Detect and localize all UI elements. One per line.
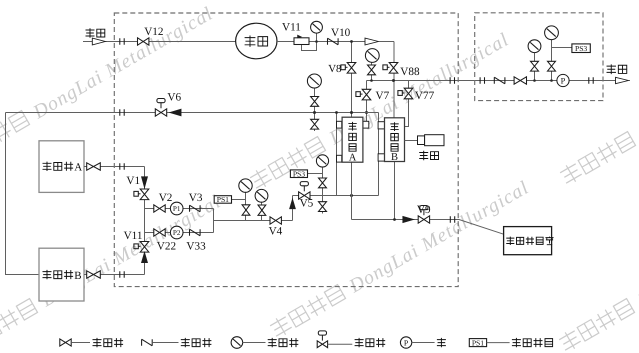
legend: pressure gauge 压力表 [231, 337, 298, 349]
gas cylinder 气缸 [405, 135, 445, 161]
auto valve V9 [417, 204, 431, 223]
tank B manual valve [87, 271, 101, 278]
gauge stub 2 on discharge [255, 189, 268, 220]
check valve V10 [328, 27, 351, 45]
svg-text:B: B [74, 270, 81, 282]
hot water outlet 热水 [607, 64, 629, 83]
pump P2 [170, 226, 183, 239]
circulation tank A 循环槽A [39, 141, 84, 193]
flange at mini box exit [589, 77, 593, 84]
check valve V3 [189, 192, 203, 212]
svg-text:V8: V8 [328, 63, 341, 75]
flange union on air line [120, 38, 124, 45]
node: air inlet arrow 空气 [86, 28, 106, 45]
gauge + PS3 stub at x322.5 [290, 155, 328, 214]
pump P hot water [557, 74, 569, 86]
svg-text:V77: V77 [415, 90, 435, 102]
flange tank B line [120, 271, 124, 278]
svg-text:PS3: PS3 [575, 44, 587, 53]
svg-text:V1: V1 [126, 175, 140, 187]
wire: V8 branch down into filter A top [350, 40, 353, 117]
svg-text:PS3: PS3 [293, 169, 305, 178]
filter B 过滤器B [378, 118, 404, 163]
flange tank A line [120, 163, 124, 170]
gauge stub 2 + PS3 mini box [545, 26, 591, 82]
tank A manual valve [87, 163, 101, 170]
valve V77 (solenoid) [398, 88, 435, 102]
svg-text:V11: V11 [282, 21, 301, 33]
svg-text:V7: V7 [376, 90, 390, 102]
filter A bottom stem + drop to waste line [350, 111, 353, 220]
svg-text:PS1: PS1 [217, 195, 229, 204]
svg-text:V3: V3 [189, 192, 203, 204]
wire: tank A outlet [84, 166, 145, 168]
svg-text:V2: V2 [159, 192, 173, 204]
svg-text:B: B [391, 152, 398, 163]
hot water unit dashed boundary [475, 13, 603, 101]
flow arrow on top line [365, 38, 379, 45]
svg-text:V5: V5 [300, 197, 314, 209]
valve V88 (solenoid) [383, 63, 420, 79]
flow arrow down into V1 [142, 177, 148, 188]
wire: pump branch lower [145, 232, 214, 234]
filter B bottom stem [394, 161, 396, 220]
flange on V6 line [120, 109, 124, 116]
svg-text:V6: V6 [167, 91, 181, 103]
filter B drain vertical [378, 113, 380, 196]
PS1 differential pressure switch [214, 195, 245, 204]
wire: V7 branch into filter A right tab [365, 81, 368, 122]
wire: V88 branch from corner down into filter B top [393, 42, 395, 119]
flange at hot-water mini box entry [480, 77, 484, 84]
pressure gauge at V11 outlet [311, 21, 323, 42]
main system dashed boundary [114, 13, 458, 287]
svg-text:P2: P2 [173, 229, 181, 237]
gauge + valves stub at x314.5 [307, 74, 321, 131]
check valve V33 [186, 229, 206, 252]
manual valve in mini box [514, 77, 526, 84]
wire: pump branch upper [145, 208, 214, 210]
wire: main supply line y112.5 (V6 line) [6, 112, 379, 114]
flow arrow left toward V6 [170, 109, 181, 116]
gas tank 气罐 [236, 23, 277, 59]
svg-text:P: P [561, 77, 566, 86]
legend: manual valve 手动阀 [60, 338, 123, 347]
flow arrow up to flush line [290, 199, 296, 209]
svg-text:V88: V88 [400, 66, 420, 78]
wire: flush line L1 y195.5 [293, 194, 379, 197]
svg-text:V11: V11 [124, 230, 143, 242]
filter A drain vertical [335, 111, 338, 195]
flow arrow up into V11 [142, 253, 148, 263]
wire: waste line L2 y219.5 [352, 218, 504, 234]
flange on waste line [450, 216, 454, 223]
svg-text:A: A [349, 152, 357, 163]
svg-text:V9: V9 [417, 204, 431, 216]
gauge stub 1 mini box [528, 40, 541, 82]
legend: check valve 单向阀 [142, 338, 212, 347]
valve V2 [154, 192, 173, 212]
svg-text:P1: P1 [173, 205, 181, 213]
wire: hot water header y80.5 [367, 79, 631, 82]
legend: pump 泵 [400, 337, 446, 348]
svg-text:A: A [74, 162, 82, 174]
waste discharge tank 废液排放槽 [504, 227, 554, 255]
legend: diff pressure switch 压差开关 [469, 338, 552, 347]
legend: auto valve 自动阀 [317, 331, 385, 348]
valve V11 lower (solenoid) [124, 230, 149, 252]
svg-text:V12: V12 [144, 26, 163, 38]
svg-text:V33: V33 [186, 241, 206, 253]
valve V7 (solenoid) [356, 89, 390, 102]
auto valve V6 [155, 91, 181, 116]
valve V22 [154, 229, 176, 253]
gauge stub 1 on discharge [239, 179, 252, 221]
valve V12 [138, 26, 164, 45]
svg-text:PS1: PS1 [472, 338, 484, 347]
svg-text:V10: V10 [331, 27, 351, 39]
wire: tank B outlet [84, 274, 145, 276]
wire: air inlet line to gas tank [83, 41, 236, 43]
filter A 过滤器A [337, 117, 369, 163]
gauge + valve stub above hot-water header [365, 49, 379, 81]
regulator V11 with feedback loop [282, 21, 317, 50]
valve V8 (solenoid) [328, 63, 356, 76]
wire: gas tank to V11 regulator to corner x394 [277, 41, 394, 43]
valve V1 (solenoid) [126, 175, 148, 200]
svg-text:V22: V22 [157, 241, 176, 253]
wire: vertical suction header x144.5 [144, 167, 146, 275]
auto valve V5 [299, 182, 314, 210]
flow arrow on waste line [403, 217, 414, 223]
circulation tank B 循环槽B [39, 248, 84, 301]
pump P1 [170, 202, 183, 215]
check valve in mini box [494, 77, 505, 84]
svg-text:V4: V4 [269, 226, 283, 238]
wire: branch join vertical + discharge line [214, 196, 293, 233]
flange on hot water line inside main box [450, 77, 454, 84]
valve V4 [269, 217, 283, 238]
svg-text:P: P [404, 338, 409, 347]
wire: left return loop [6, 113, 40, 275]
wire: V77 branch into filter B right side [405, 81, 409, 127]
